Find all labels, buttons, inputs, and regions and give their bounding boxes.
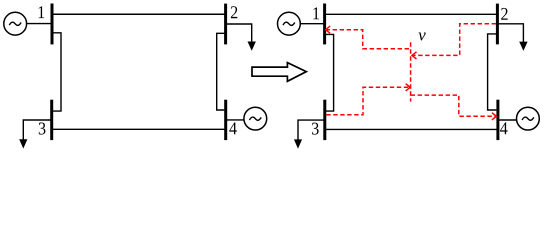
bus 4 (left) (224, 100, 227, 140)
wire line 1-3 (right) (326, 34, 334, 111)
red dashed path v to bus 4 (411, 95, 497, 116)
bus 2 (left) (224, 4, 227, 45)
wire line 2-4 (left) (217, 33, 225, 110)
red arrowhead into bus 4 (492, 113, 497, 120)
red arrowhead into node v (from bus 3) (406, 84, 411, 91)
generator G1 (left, at bus 1) (4, 12, 27, 35)
load arrow at bus 3 (left) (19, 120, 50, 149)
red dashed path bus 2 to v (412, 24, 496, 56)
bus 3 (left) (50, 100, 53, 140)
label 1 (right bus 1) (313, 7, 319, 19)
wire gen G4 lead (right) (499, 119, 516, 121)
label 4 (left bus 4) (229, 122, 236, 134)
bus 4 (right) (496, 100, 499, 140)
label 1 (left bus 1) (39, 6, 45, 18)
load arrow at bus 3 (right) (294, 120, 324, 149)
bus 2 (right) (496, 4, 499, 45)
wire line 1-2 (left) (52, 13, 226, 15)
bus 3 (right) (323, 100, 326, 140)
wire line 2-4 (right) (488, 34, 497, 110)
label 2 (left bus 2) (231, 6, 237, 18)
label 3 (right bus 3) (312, 123, 319, 135)
wire line 1-2 (right) (325, 13, 498, 15)
wire gen G1 to bus 1 (left) (27, 23, 53, 25)
wire line 1-3 (left) (53, 33, 61, 111)
load arrow at bus 2 (right) (498, 24, 527, 51)
label 2 (right bus 2) (501, 8, 507, 20)
generator G1 (right, at bus 1) (278, 12, 301, 35)
big hollow implication arrow between diagrams (252, 63, 306, 82)
label 3 (left bus 3) (39, 122, 46, 134)
generator G4 (left, at bus 4) (244, 107, 267, 130)
red dashed vertical line at node v (410, 42, 412, 101)
wire gen G4 lead (left) (227, 119, 244, 121)
label v (virtual node) (418, 33, 425, 41)
label 4 (right bus 4) (500, 122, 507, 134)
red dashed path v to bus 1 (326, 30, 411, 49)
bus 1 (right) (323, 4, 326, 45)
generator G4 (right, at bus 4) (517, 107, 540, 130)
bus 1 (left) (51, 4, 54, 45)
red arrowhead into node v (from bus 2) (412, 52, 417, 59)
wire line 3-4 (right) (326, 128, 497, 130)
wire line 3-4 (left) (53, 128, 225, 130)
red dashed path bus 3 to v (326, 87, 410, 114)
wire gen G1 to bus 1 (right) (300, 23, 324, 25)
red arrowhead into bus 1 (326, 26, 331, 33)
load arrow at bus 2 (left) (227, 24, 256, 51)
